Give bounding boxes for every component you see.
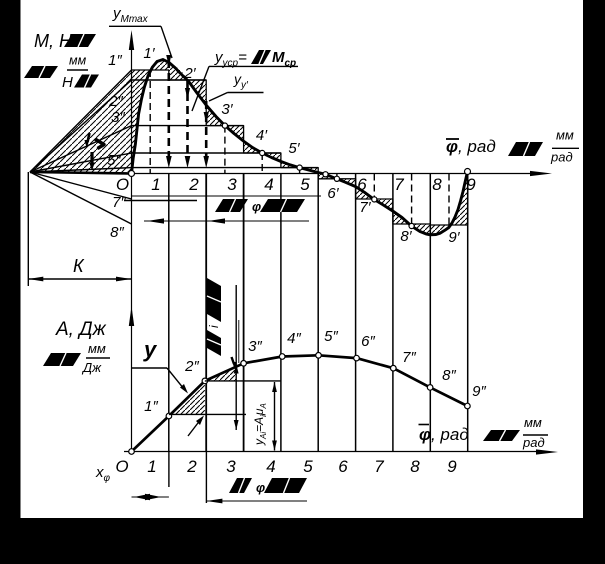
svg-text:6: 6	[357, 175, 367, 194]
svg-text:5: 5	[303, 457, 313, 476]
svg-text:4′: 4′	[256, 127, 268, 144]
svg-text:7″: 7″	[402, 349, 416, 366]
svg-text:i: i	[207, 325, 221, 328]
svg-text:мм: мм	[556, 128, 574, 143]
svg-text:1″: 1″	[144, 398, 158, 415]
svg-text:1: 1	[151, 175, 160, 194]
svg-text:6″: 6″	[361, 333, 375, 350]
svg-text:1: 1	[147, 457, 156, 476]
svg-text:3: 3	[226, 457, 236, 476]
svg-text:8: 8	[432, 175, 442, 194]
svg-text:5″: 5″	[324, 328, 338, 345]
svg-text:К: К	[73, 256, 85, 276]
svg-text:6: 6	[338, 457, 348, 476]
svg-text:5′: 5′	[288, 140, 300, 157]
svg-text:Дж: Дж	[81, 360, 102, 375]
svg-text:2″: 2″	[184, 358, 199, 375]
svg-text:5: 5	[300, 175, 310, 194]
svg-text:φ: φ	[256, 480, 265, 495]
svg-text:мм: мм	[69, 54, 87, 68]
svg-text:8″: 8″	[442, 367, 456, 384]
svg-text:8′: 8′	[400, 228, 412, 245]
svg-text:рад: рад	[522, 435, 545, 450]
svg-text:Н: Н	[62, 74, 73, 91]
svg-text:2″: 2″	[108, 93, 123, 110]
svg-text:φ: φ	[252, 199, 261, 214]
svg-text:3′: 3′	[221, 101, 233, 118]
svg-text:9: 9	[466, 175, 476, 194]
svg-text:А, Дж: А, Дж	[55, 319, 107, 340]
svg-text:7: 7	[374, 457, 384, 476]
svg-text:7: 7	[394, 175, 404, 194]
svg-text:2: 2	[188, 175, 199, 194]
svg-text:мм: мм	[524, 415, 542, 430]
svg-text:8: 8	[410, 457, 420, 476]
svg-text:9″: 9″	[472, 383, 486, 400]
svg-text:1′: 1′	[143, 45, 155, 62]
svg-text:4″: 4″	[287, 330, 301, 347]
svg-text:φ, рад: φ, рад	[419, 425, 469, 444]
svg-text:мм: мм	[88, 341, 106, 356]
svg-text:3: 3	[227, 175, 237, 194]
svg-text:5″: 5″	[107, 152, 121, 169]
svg-text:у: у	[143, 337, 158, 362]
svg-text:4: 4	[266, 457, 275, 476]
svg-text:7′: 7′	[359, 199, 371, 216]
svg-text:уАi=АiμА: уАi=АiμА	[252, 403, 268, 446]
svg-text:9′: 9′	[448, 229, 460, 246]
svg-text:2′: 2′	[183, 65, 196, 82]
svg-text:9: 9	[447, 457, 457, 476]
svg-text:8″: 8″	[110, 224, 124, 241]
svg-text:7″: 7″	[112, 194, 126, 211]
svg-text:3″: 3″	[248, 338, 262, 355]
svg-text:1″: 1″	[108, 52, 122, 69]
svg-text:6′: 6′	[327, 185, 339, 202]
svg-text:рад: рад	[550, 150, 573, 165]
svg-text:М, Н: М, Н	[34, 31, 73, 51]
svg-text:2: 2	[186, 457, 197, 476]
svg-text:О: О	[115, 457, 128, 476]
svg-text:4: 4	[264, 175, 273, 194]
svg-text:О: О	[116, 175, 129, 194]
svg-text:3″: 3″	[111, 109, 125, 126]
